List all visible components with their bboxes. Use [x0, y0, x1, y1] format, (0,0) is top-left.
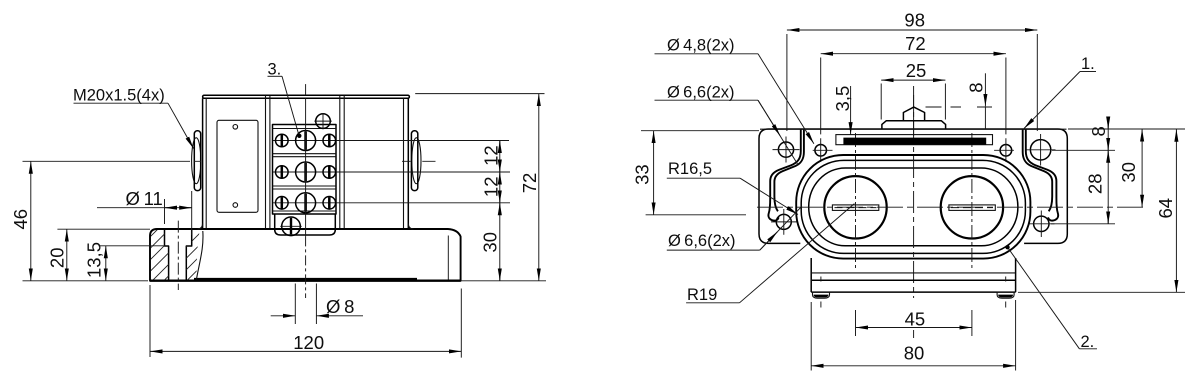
svg-text:72: 72: [519, 173, 540, 194]
center tick below 45: [913, 330, 915, 338]
label plate: [217, 120, 258, 212]
bottom section lines: [812, 272, 1015, 274]
svg-text:R16,5: R16,5: [668, 160, 712, 178]
slot left: [832, 205, 878, 211]
svg-text:72: 72: [905, 33, 926, 54]
middle column centerline: [305, 84, 307, 95]
flange corner screw bottom-left: [776, 214, 791, 229]
flange arm right: [1026, 130, 1058, 221]
base right chamfer edge: [447, 236, 449, 280]
dim 64: [1175, 129, 1177, 292]
svg-text:Ø 4,8(2x): Ø 4,8(2x): [667, 37, 735, 55]
device horizontal centerline right: [402, 160, 436, 162]
dim 46 / 20 / 13,5 bottom extension: [23, 280, 149, 282]
counterbore hole: [165, 229, 192, 280]
svg-text:2.: 2.: [1081, 333, 1095, 351]
bottom section bottom edge: [811, 291, 1015, 293]
dim 8/30/64 top extension: [1068, 128, 1185, 130]
body section dividers: [266, 96, 345, 230]
terminal screws row2: [296, 162, 316, 182]
svg-text:45: 45: [905, 309, 926, 330]
cable gland left body: [194, 131, 200, 191]
terminal screws row1: [296, 131, 316, 151]
cable gland left dome: [192, 138, 201, 184]
svg-text:120: 120: [293, 332, 324, 353]
svg-text:64: 64: [1155, 198, 1176, 219]
plate screw bottom: [233, 203, 238, 208]
svg-text:3.: 3.: [268, 61, 282, 79]
terminal block inner lines: [273, 129, 337, 212]
base bottom groove: [194, 278, 417, 281]
cable gland right body: [411, 131, 417, 191]
dim 80: [811, 365, 1015, 367]
svg-text:25: 25: [906, 60, 927, 81]
base-body fillet left: [198, 224, 203, 230]
hole centerline: [177, 221, 179, 290]
dim 72 left view: [538, 94, 540, 281]
dim 30 right: [1141, 129, 1143, 207]
hole centerline left: [855, 133, 857, 268]
cover bar outline: [836, 135, 993, 145]
screw slots vertical (bold): [282, 135, 330, 209]
mounting flange outline: [759, 129, 1067, 243]
hole centerline right: [971, 133, 973, 268]
foot centerline right: [1005, 277, 1007, 308]
svg-text:1.: 1.: [1081, 55, 1095, 73]
plunger base block: [882, 121, 946, 129]
plunger tip: [903, 107, 924, 121]
plate screw small left: [815, 145, 827, 157]
hatching left: [140, 182, 205, 351]
housing middle contour: [801, 160, 1025, 253]
cable gland right dome: [412, 138, 421, 184]
terminal row line 3: [273, 202, 510, 204]
svg-text:30: 30: [480, 232, 501, 253]
dim 46: [30, 161, 32, 280]
dim 33: [653, 131, 655, 215]
base-body fillet right: [408, 224, 413, 230]
terminal row line 2: [273, 171, 510, 173]
dim 120: [150, 350, 461, 352]
bottom tab: [275, 214, 336, 235]
foot left: [813, 292, 830, 298]
terminal block outline: [273, 125, 337, 215]
dim 13,5: [105, 246, 107, 281]
svg-text:Ø 6,6(2x): Ø 6,6(2x): [668, 232, 736, 250]
dim 20: [66, 229, 68, 281]
cable hole left: [824, 176, 886, 238]
svg-text:98: 98: [904, 10, 925, 31]
foot centerline left: [820, 277, 822, 308]
cable hole right: [941, 176, 1003, 238]
base bottom edge bold: [150, 280, 461, 282]
svg-text:Ø 11: Ø 11: [126, 188, 163, 209]
hidden body curve behind section: [196, 231, 203, 280]
dim 8 right: [1107, 121, 1109, 224]
dim 98: [787, 29, 1037, 31]
svg-text:M20x1.5(4x): M20x1.5(4x): [73, 87, 165, 105]
svg-text:13,5: 13,5: [83, 242, 104, 278]
bottom screw: [282, 217, 301, 236]
svg-text:12: 12: [480, 145, 501, 166]
plate screw small right: [1000, 145, 1012, 157]
terminal row line 1: [273, 140, 509, 142]
svg-text:12: 12: [480, 177, 501, 198]
body left edge: [202, 98, 204, 229]
svg-text:8: 8: [966, 82, 987, 92]
body right edge: [403, 98, 405, 229]
cover bar bold band: [843, 138, 986, 145]
svg-text:33: 33: [632, 164, 653, 185]
dim 45: [856, 327, 972, 329]
svg-text:30: 30: [1118, 162, 1139, 183]
dim 3,5: [850, 86, 852, 135]
view vertical centerline: [913, 86, 915, 298]
svg-text:Ø 8: Ø 8: [326, 296, 354, 317]
dim 72: [821, 53, 1006, 55]
body top cap: [203, 95, 410, 98]
slot right: [949, 205, 995, 211]
dim 28: [1107, 216, 1109, 224]
flange top edge line: [760, 128, 1067, 130]
base plate outline: [150, 229, 461, 281]
flange corner screw bottom-right: [1034, 216, 1049, 231]
device horizontal centerline left: [23, 160, 202, 162]
svg-text:28: 28: [1084, 174, 1105, 195]
flange arm left: [768, 130, 800, 221]
svg-text:8: 8: [1088, 126, 1109, 136]
svg-text:Ø 6,6(2x): Ø 6,6(2x): [667, 83, 735, 101]
svg-text:3,5: 3,5: [832, 86, 853, 112]
dim 25: [881, 79, 945, 81]
dim 8 top: [984, 73, 986, 106]
terminal screws row3: [296, 193, 316, 213]
view horizontal centerline: [757, 206, 1147, 208]
housing inner contour: [809, 168, 1018, 246]
foot right: [997, 292, 1014, 298]
svg-text:80: 80: [904, 343, 925, 364]
bottom section sides: [811, 258, 1015, 292]
top screw: [316, 114, 331, 129]
flange corner screw top-left: [778, 142, 793, 157]
housing outer contour: [796, 155, 1030, 259]
hatching right: [140, 182, 205, 351]
svg-text:R19: R19: [687, 286, 717, 304]
dim chain 12/12/30: [499, 141, 501, 281]
svg-text:46: 46: [10, 209, 31, 230]
svg-text:20: 20: [46, 248, 67, 269]
flange corner screw top-right: [1030, 140, 1050, 160]
plate screw top: [233, 125, 238, 130]
